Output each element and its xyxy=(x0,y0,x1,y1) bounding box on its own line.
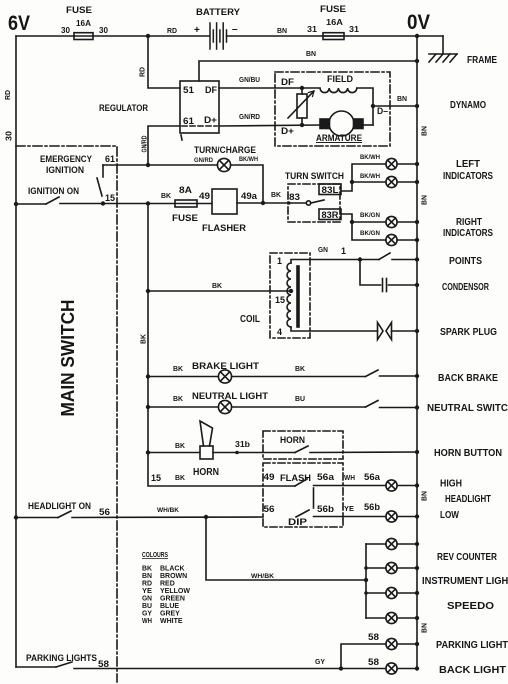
svg-text:GN: GN xyxy=(142,596,152,603)
svg-text:GN/RD: GN/RD xyxy=(239,114,260,121)
turn switch enclosure xyxy=(288,184,340,222)
svg-text:COLOURS: COLOURS xyxy=(142,550,168,559)
svg-text:WHITE: WHITE xyxy=(160,618,183,625)
dip switch blade xyxy=(296,510,343,517)
svg-text:61: 61 xyxy=(105,154,115,164)
svg-text:15: 15 xyxy=(151,473,161,483)
lamp: low beam xyxy=(386,511,417,522)
svg-text:DYNAMO: DYNAMO xyxy=(450,100,486,111)
wire: flasher 49a to turn switch 83 (BK) xyxy=(237,202,306,204)
battery B1 xyxy=(210,23,227,49)
terminal 83L xyxy=(319,184,341,195)
svg-text:GN/RD: GN/RD xyxy=(194,157,213,164)
svg-text:49a: 49a xyxy=(241,191,258,201)
wire: 0V drop to frame ground xyxy=(442,36,444,54)
svg-text:BK: BK xyxy=(139,333,148,344)
svg-text:BK: BK xyxy=(175,473,186,482)
svg-text:31: 31 xyxy=(307,24,317,34)
wire: top 6V rail xyxy=(16,35,443,37)
coil primary winding xyxy=(287,263,291,327)
svg-text:YE: YE xyxy=(344,504,354,513)
svg-text:HIGH: HIGH xyxy=(440,479,462,490)
svg-text:BN: BN xyxy=(422,195,429,205)
wire: battery junction to regulator 51 (RD) xyxy=(148,36,180,88)
svg-text:30: 30 xyxy=(4,131,14,141)
svg-text:MAIN SWITCH: MAIN SWITCH xyxy=(58,300,78,417)
svg-text:BACK BRAKE: BACK BRAKE xyxy=(438,373,498,384)
svg-text:56: 56 xyxy=(99,507,110,517)
lamp: high beam xyxy=(386,480,417,491)
svg-text:BN: BN xyxy=(306,49,316,58)
svg-text:16A: 16A xyxy=(76,18,91,28)
svg-text:15: 15 xyxy=(105,193,115,203)
ground: frame symbol xyxy=(429,54,457,62)
svg-text:PARKING LIGHT: PARKING LIGHT xyxy=(436,640,508,651)
svg-text:BLUE: BLUE xyxy=(160,603,179,610)
fuse F1 16A xyxy=(74,33,93,40)
svg-text:FUSE: FUSE xyxy=(66,5,92,16)
wire: 15 feed down to flash terminal 49 (BK) xyxy=(148,453,295,487)
wire: parking light branch xyxy=(341,644,386,669)
svg-text:INSTRUMENT LIGHT: INSTRUMENT LIGHT xyxy=(422,576,508,587)
svg-text:RD: RD xyxy=(167,26,178,35)
svg-text:ARMATURE: ARMATURE xyxy=(316,133,362,144)
svg-text:BACK LIGHT: BACK LIGHT xyxy=(439,665,506,676)
svg-text:FRAME: FRAME xyxy=(467,55,497,66)
svg-text:HORN: HORN xyxy=(280,435,305,446)
svg-text:PARKING LIGHTS: PARKING LIGHTS xyxy=(26,653,97,664)
svg-text:BK/GN: BK/GN xyxy=(360,230,380,237)
wire: D+ to armature (GN/RD) xyxy=(219,125,320,126)
neutral switch xyxy=(366,401,418,408)
svg-text:–: – xyxy=(232,24,238,35)
svg-text:83: 83 xyxy=(289,192,300,202)
spark plug gap xyxy=(378,323,418,340)
svg-text:RD: RD xyxy=(3,89,12,100)
svg-text:RIGHT: RIGHT xyxy=(456,217,482,228)
emergency ignition switch xyxy=(97,165,103,196)
lamp: neutral light xyxy=(218,400,365,413)
svg-text:NEUTRAL LIGHT: NEUTRAL LIGHT xyxy=(192,391,268,402)
svg-text:EMERGENCY: EMERGENCY xyxy=(40,154,93,165)
svg-text:HEADLIGHT: HEADLIGHT xyxy=(445,494,491,505)
dynamo enclosure xyxy=(275,72,390,146)
dip switch enclosure xyxy=(263,463,343,527)
svg-text:BK/GN: BK/GN xyxy=(360,212,380,219)
ignition on switch xyxy=(16,197,148,204)
horn button enclosure xyxy=(263,431,343,459)
svg-text:BK/WH: BK/WH xyxy=(239,156,258,163)
wire: right 0V bus (BN) xyxy=(416,36,418,669)
svg-text:GY: GY xyxy=(142,611,152,618)
svg-text:83R: 83R xyxy=(322,210,340,220)
svg-text:SPARK PLUG: SPARK PLUG xyxy=(440,327,497,338)
wire: terminal 61 branch down (GN/RD) xyxy=(148,126,180,165)
lamp: instrument light 2 xyxy=(366,612,417,623)
lamp: right indicator 2 xyxy=(386,234,417,245)
variable resistor (field regulator) xyxy=(288,88,314,125)
parking lights switch xyxy=(16,662,341,669)
svg-text:8A: 8A xyxy=(179,185,192,196)
horn H1 xyxy=(200,421,213,459)
link: 56a to dip blade xyxy=(313,488,315,508)
svg-text:D+: D+ xyxy=(281,126,294,136)
svg-text:30: 30 xyxy=(61,25,70,35)
svg-text:SPEEDO: SPEEDO xyxy=(447,601,494,612)
back brake switch xyxy=(366,370,418,377)
lamp: rev counter light xyxy=(366,538,417,549)
svg-text:GN/RD: GN/RD xyxy=(142,136,149,153)
svg-text:DF: DF xyxy=(281,77,295,87)
wire: WH/BK instrument feed xyxy=(206,517,366,580)
svg-text:D+: D+ xyxy=(204,115,217,125)
svg-text:58: 58 xyxy=(368,632,379,642)
svg-text:0V: 0V xyxy=(407,11,430,34)
svg-text:GY: GY xyxy=(315,657,325,666)
svg-text:56b: 56b xyxy=(364,502,381,512)
svg-text:BN: BN xyxy=(397,94,407,103)
svg-text:DF: DF xyxy=(205,85,217,95)
wire: 83L to left indicator lamps (BK/WH) xyxy=(341,164,386,191)
wire: coil 1 to points (GN) xyxy=(291,260,360,264)
fuse F3 8A xyxy=(175,200,197,207)
svg-text:16A: 16A xyxy=(326,17,343,27)
wire: switched 15 bus down (BK) xyxy=(147,204,149,453)
svg-text:RD: RD xyxy=(142,581,152,588)
svg-text:D–: D– xyxy=(377,106,388,116)
lamp: back light xyxy=(341,663,417,674)
wire: neutral light row (BK/BU) xyxy=(148,406,218,408)
svg-text:INDICATORS: INDICATORS xyxy=(443,228,493,239)
wire: lamp to 49a junction xyxy=(231,165,263,203)
svg-text:BK: BK xyxy=(161,191,172,200)
wire: brake light row (BK) xyxy=(148,376,218,378)
svg-text:COIL: COIL xyxy=(240,314,260,325)
condensor C1 xyxy=(360,260,417,292)
svg-text:BN: BN xyxy=(422,623,429,633)
svg-text:HORN: HORN xyxy=(193,467,219,478)
svg-text:REGULATOR: REGULATOR xyxy=(99,103,148,114)
svg-text:58: 58 xyxy=(98,659,109,669)
main switch boundary (dash-dot) xyxy=(16,146,117,682)
svg-text:WH/BK: WH/BK xyxy=(251,573,274,580)
lamp: instrument light 1 xyxy=(366,562,417,573)
svg-text:BU: BU xyxy=(142,603,152,610)
svg-text:BN: BN xyxy=(277,26,287,35)
svg-text:REV COUNTER: REV COUNTER xyxy=(437,552,498,563)
svg-text:BLACK: BLACK xyxy=(160,566,185,573)
lamp: left indicator 1 xyxy=(386,158,417,169)
wire: 56b to low beam lamp (YE) xyxy=(343,516,386,518)
svg-text:FLASHER: FLASHER xyxy=(202,223,246,234)
svg-text:51: 51 xyxy=(183,85,194,95)
svg-text:30: 30 xyxy=(99,25,108,35)
headlight on switch xyxy=(16,511,263,518)
node: 6V supply label xyxy=(8,12,30,35)
svg-text:BK: BK xyxy=(142,566,152,573)
svg-text:CONDENSOR: CONDENSOR xyxy=(442,282,490,293)
wire: instrument lamp feeder xyxy=(365,544,367,618)
svg-text:31: 31 xyxy=(349,24,359,34)
svg-text:FUSE: FUSE xyxy=(320,4,346,15)
svg-text:83L: 83L xyxy=(322,185,340,195)
svg-text:INDICATORS: INDICATORS xyxy=(443,171,493,182)
wire: ignition row to 8A fuse (BK) xyxy=(148,203,175,205)
armature M1 xyxy=(320,111,373,136)
svg-text:BK: BK xyxy=(173,364,184,373)
svg-text:BATTERY: BATTERY xyxy=(196,7,241,18)
svg-text:WH: WH xyxy=(142,618,152,625)
svg-text:49: 49 xyxy=(199,191,210,201)
svg-text:FIELD: FIELD xyxy=(327,74,353,85)
turn switch blade and pivot xyxy=(306,200,324,205)
wire: fuse to flasher pin 49 xyxy=(197,203,212,205)
svg-text:HORN BUTTON: HORN BUTTON xyxy=(434,448,502,459)
lamp: brake light xyxy=(218,370,365,383)
svg-text:GREY: GREY xyxy=(160,611,180,618)
svg-text:BN: BN xyxy=(422,126,429,136)
svg-text:1: 1 xyxy=(277,256,282,266)
svg-text:BU: BU xyxy=(295,394,305,403)
svg-text:1: 1 xyxy=(341,246,346,256)
colours legend xyxy=(142,550,190,625)
lamp: speedo light xyxy=(366,587,417,598)
regulator U1 xyxy=(180,81,219,140)
svg-text:WH/BK: WH/BK xyxy=(157,507,179,514)
wire: coil 15 feed (BK) xyxy=(148,290,291,292)
svg-text:56: 56 xyxy=(264,504,275,514)
horn button switch blade xyxy=(295,446,417,453)
wire: 56a to high beam lamp (WH) xyxy=(343,485,386,487)
svg-text:IGNITION: IGNITION xyxy=(46,165,84,176)
lamp: right indicator 1 xyxy=(386,216,417,227)
wire: 83R to right indicator lamps (BK/GN) xyxy=(341,214,386,240)
wire: horn row (BK) xyxy=(148,452,200,454)
svg-text:YE: YE xyxy=(142,588,152,595)
svg-text:15: 15 xyxy=(275,295,285,305)
svg-text:LEFT: LEFT xyxy=(456,159,480,170)
svg-text:GN: GN xyxy=(318,245,328,254)
wire: DF to field (GN/BU) xyxy=(219,87,302,89)
lamp: left indicator 2 xyxy=(386,176,417,187)
node: 0V label xyxy=(407,11,430,34)
flasher unit xyxy=(212,189,237,214)
svg-text:BK: BK xyxy=(295,364,306,373)
svg-text:56a: 56a xyxy=(317,472,335,482)
svg-text:61: 61 xyxy=(183,116,194,126)
wire: coil 4 to spark plug xyxy=(291,327,378,331)
coil enclosure xyxy=(270,253,310,338)
svg-text:BK: BK xyxy=(173,394,184,403)
svg-text:BN: BN xyxy=(422,491,429,501)
svg-text:56b: 56b xyxy=(317,504,335,514)
svg-text:TURN SWITCH: TURN SWITCH xyxy=(285,171,344,182)
svg-text:BK: BK xyxy=(271,190,282,199)
svg-text:6V: 6V xyxy=(8,12,30,35)
svg-text:31b: 31b xyxy=(235,439,250,449)
wire: D- to 0V bus (BN) xyxy=(373,105,417,107)
svg-text:HEADLIGHT ON: HEADLIGHT ON xyxy=(28,501,91,512)
fuse F2 16A xyxy=(323,33,344,40)
svg-text:RED: RED xyxy=(160,581,175,588)
svg-text:BK: BK xyxy=(175,441,186,450)
wire: 61 row to turn/charge lamp xyxy=(103,164,218,166)
flash switch blade xyxy=(295,479,343,486)
wire: horn to horn button xyxy=(213,452,295,454)
svg-text:+: + xyxy=(194,25,200,36)
svg-text:BK/WH: BK/WH xyxy=(360,154,380,161)
field winding L1 xyxy=(302,88,373,125)
svg-text:BROWN: BROWN xyxy=(160,573,187,580)
wire: left 6V bus (RD/30) xyxy=(15,36,17,667)
lamp: parking light xyxy=(386,638,417,649)
svg-text:FUSE: FUSE xyxy=(172,213,198,224)
svg-text:BK: BK xyxy=(212,281,223,290)
svg-text:WH: WH xyxy=(344,473,355,482)
coil core xyxy=(296,267,300,326)
svg-text:TURN/CHARGE: TURN/CHARGE xyxy=(194,145,256,156)
svg-text:GN/BU: GN/BU xyxy=(239,77,260,84)
svg-text:49: 49 xyxy=(264,472,275,482)
svg-text:56a: 56a xyxy=(364,472,381,482)
lamp: turn/charge indicator xyxy=(217,158,230,171)
points switch xyxy=(360,253,417,260)
svg-text:YELLOW: YELLOW xyxy=(160,588,190,595)
svg-text:LOW: LOW xyxy=(440,510,459,521)
svg-text:RD: RD xyxy=(138,66,147,77)
svg-text:IGNITION ON: IGNITION ON xyxy=(28,186,79,197)
svg-text:NEUTRAL SWITCH: NEUTRAL SWITCH xyxy=(427,403,508,414)
svg-text:BK/WH: BK/WH xyxy=(360,173,380,180)
svg-text:4: 4 xyxy=(277,327,282,337)
terminal 83R xyxy=(319,209,341,220)
wire: regulator case to 0V bus (BN) xyxy=(199,61,417,81)
svg-text:BN: BN xyxy=(142,573,152,580)
svg-text:GREEN: GREEN xyxy=(160,596,185,603)
svg-text:DIP: DIP xyxy=(288,517,308,528)
svg-text:58: 58 xyxy=(368,657,379,667)
svg-text:POINTS: POINTS xyxy=(449,256,482,267)
